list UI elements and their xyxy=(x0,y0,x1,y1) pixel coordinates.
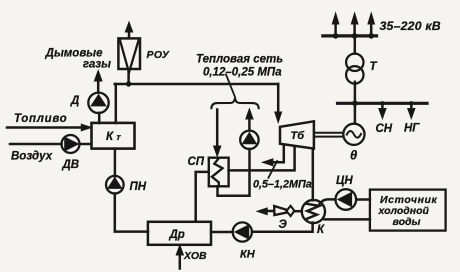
wire network pump discharge xyxy=(248,118,251,130)
wire fuel line xyxy=(7,126,82,129)
condenser zigzag xyxy=(306,204,319,219)
turbine Tb xyxy=(280,121,314,148)
condenser K xyxy=(302,200,325,223)
condensate pump KN xyxy=(233,222,252,241)
wire turbine inlet drop xyxy=(277,84,280,115)
wire condenser outlet to source xyxy=(324,218,370,221)
svg-text:Тепловая сеть: Тепловая сеть xyxy=(196,54,283,66)
wire XOV makeup xyxy=(179,254,182,269)
wire generator riser xyxy=(354,103,357,123)
transformer T xyxy=(354,82,357,104)
shaft turbine-generator xyxy=(314,133,344,137)
arrow NG xyxy=(409,101,413,105)
arrows to grid xyxy=(333,33,339,39)
wire ejector exhaust xyxy=(264,210,274,213)
svg-text:0,5–1,2МПа: 0,5–1,2МПа xyxy=(253,178,312,190)
deaerator Dr xyxy=(148,222,211,245)
ROU internal V xyxy=(120,40,139,73)
wire fan suction xyxy=(98,113,101,123)
svg-text:Э: Э xyxy=(279,219,288,231)
lower bus xyxy=(338,102,428,105)
svg-text:Воздух: Воздух xyxy=(11,150,53,162)
wire ROU lower xyxy=(127,69,130,84)
svg-text:СН: СН xyxy=(376,123,393,135)
circulating pump CN xyxy=(336,189,357,210)
svg-text:СП: СП xyxy=(188,156,205,168)
svg-text:ДВ: ДВ xyxy=(62,159,80,171)
wire condensate line from condenser xyxy=(252,223,313,232)
svg-text:Т: Т xyxy=(370,61,378,73)
leader extraction label xyxy=(268,161,277,178)
wire SP outlet to network pump xyxy=(218,149,250,196)
ROU reducing-cooling unit body xyxy=(118,38,140,69)
svg-text:Др: Др xyxy=(169,229,185,241)
wire air line left xyxy=(10,143,62,146)
svg-text:35–220 кВ: 35–220 кВ xyxy=(380,19,441,33)
node generator on bus xyxy=(352,101,358,107)
svg-text:Топливо: Топливо xyxy=(14,113,67,125)
wire turbine to condenser xyxy=(312,149,315,201)
wire boiler steam riser xyxy=(115,84,118,123)
wire SP drain to deaerator xyxy=(196,172,209,222)
wire main steam header xyxy=(115,83,279,86)
arrow turbine inlet xyxy=(275,112,282,123)
wire deaerator to KN pump xyxy=(211,231,233,234)
svg-text:ХОВ: ХОВ xyxy=(183,250,207,262)
top bus xyxy=(323,34,377,37)
heat network brace xyxy=(211,98,258,108)
wire condenser to CN pump xyxy=(319,199,336,204)
wire fan discharge xyxy=(97,80,100,92)
svg-text:КН: КН xyxy=(240,249,256,261)
arrow ROU outlet xyxy=(125,22,132,32)
fan D (smoke exhauster) xyxy=(88,93,108,113)
wire feed pump to deaerator xyxy=(115,194,148,232)
network heater SP xyxy=(209,158,229,187)
wire ejector suction xyxy=(294,210,302,213)
arrow ejector exhaust xyxy=(257,208,267,215)
wire ROU outlet xyxy=(128,31,131,38)
svg-text:К: К xyxy=(317,224,325,236)
arrow fuel into boiler xyxy=(81,124,91,131)
arrow extraction left xyxy=(262,159,273,166)
svg-text:воды: воды xyxy=(393,216,421,228)
network pump xyxy=(240,131,258,149)
svg-text:0,12–0,25 МПа: 0,12–0,25 МПа xyxy=(203,67,282,79)
wire network return drop xyxy=(216,110,219,149)
wire CN to source box xyxy=(356,198,370,201)
wire extraction to SP xyxy=(229,148,295,171)
generator xyxy=(343,124,364,145)
svg-text:Д: Д xyxy=(70,95,79,107)
svg-text:газы: газы xyxy=(83,59,111,71)
SP zigzag coil xyxy=(212,158,223,186)
arrow into SP xyxy=(214,146,221,156)
blower DV xyxy=(62,135,80,153)
ejector diffuser diamond xyxy=(286,206,294,216)
svg-text:НГ: НГ xyxy=(404,123,420,135)
svg-text:К: К xyxy=(106,131,114,143)
arrow flue gas up xyxy=(94,71,102,82)
wire extraction arrow line xyxy=(272,147,284,163)
feed pump PN xyxy=(106,176,124,194)
arrow XOV xyxy=(176,245,183,255)
ejector nozzle xyxy=(274,206,287,215)
svg-text:ЦН: ЦН xyxy=(336,175,353,187)
cold water source box xyxy=(370,190,446,231)
arrow to network supply xyxy=(246,109,253,119)
wire boiler to feed pump xyxy=(114,149,117,177)
svg-text:РОУ: РОУ xyxy=(147,49,170,61)
boiler Kt xyxy=(92,123,135,149)
svg-text:Тб: Тб xyxy=(291,130,306,142)
node ROU branch junction xyxy=(126,81,131,86)
arrow SN xyxy=(380,101,384,105)
svg-text:ПН: ПН xyxy=(130,181,147,193)
wire air line right xyxy=(79,143,91,146)
svg-text:θ: θ xyxy=(350,148,357,163)
leader heat-network label xyxy=(226,75,235,98)
